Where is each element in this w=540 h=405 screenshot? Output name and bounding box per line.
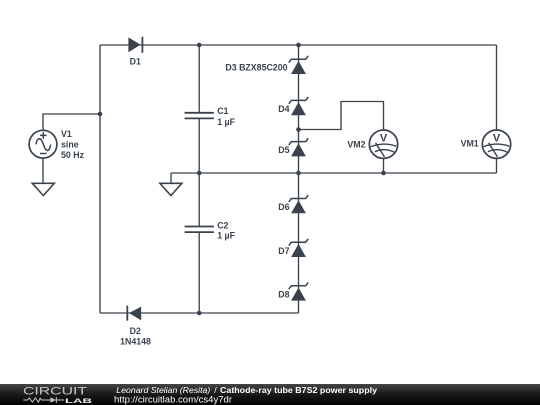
capacitor C2	[185, 227, 214, 233]
wire mid rail	[171, 172, 497, 174]
svg-text:http://circuitlab.com/cs4y7dr: http://circuitlab.com/cs4y7dr	[114, 394, 232, 404]
zener diode D3	[289, 56, 308, 74]
svg-text:D7: D7	[278, 246, 289, 256]
wire C1 branch upper	[198, 45, 200, 113]
node VM2 branch	[296, 127, 301, 132]
wire V1 bottom stub	[42, 158, 44, 183]
wire VM2 branch	[299, 102, 384, 131]
node junction dots	[98, 43, 386, 316]
svg-text:1 µF: 1 µF	[217, 117, 235, 127]
wire VM2 bottom stub	[383, 158, 385, 173]
wire C2 upper	[198, 173, 200, 227]
svg-text:D2: D2	[130, 326, 141, 336]
svg-text:D6: D6	[278, 202, 289, 212]
svg-text:C1: C1	[217, 106, 228, 116]
svg-text:Cathode-ray tube B7S2 power su: Cathode-ray tube B7S2 power supply	[220, 385, 377, 395]
wire zener column	[298, 45, 300, 313]
wire V1 top to node A	[43, 114, 100, 130]
voltmeter VM2	[369, 130, 397, 158]
node C1 top rail	[197, 43, 202, 48]
svg-text:CIRCUIT: CIRCUIT	[23, 386, 87, 398]
wire mid ground stub	[170, 173, 172, 183]
footer bar	[0, 384, 540, 405]
node C column mid rail	[197, 171, 202, 176]
svg-text:50 Hz: 50 Hz	[61, 150, 85, 160]
wire left vertical	[99, 45, 101, 313]
svg-text:V1: V1	[61, 129, 72, 139]
svg-text:VM2: VM2	[347, 139, 365, 149]
ground below V1	[32, 183, 54, 195]
diode D2 1N4148	[127, 306, 141, 321]
zener diode D5	[289, 138, 308, 156]
capacitor C1	[185, 113, 214, 119]
wire C2 to bottom rail	[198, 232, 200, 313]
svg-text:1 µF: 1 µF	[217, 231, 235, 241]
label V1 sine 50 Hz	[61, 129, 85, 160]
CircuitLab logo diode arrow	[50, 397, 56, 403]
svg-text:sine: sine	[61, 139, 79, 149]
svg-text:C2: C2	[217, 221, 228, 231]
svg-text:1N4148: 1N4148	[120, 337, 151, 347]
zener diode D8	[289, 282, 308, 300]
voltage source V1	[29, 130, 57, 158]
wire top rail	[100, 44, 497, 46]
svg-text:D5: D5	[278, 145, 289, 155]
voltmeter VM1	[482, 130, 510, 158]
svg-text:D8: D8	[278, 289, 289, 299]
wire C1 to mid rail	[198, 118, 200, 173]
wire VM1 bottom stub	[496, 158, 498, 173]
zener diode D4	[289, 97, 308, 115]
CircuitLab logo resistor-diode squiggle	[23, 397, 64, 403]
svg-text:Leonard Stelian (Resita): Leonard Stelian (Resita)	[116, 385, 210, 395]
zener diode D6	[289, 195, 308, 213]
node VM2 mid rail	[381, 171, 386, 176]
svg-text:LAB: LAB	[65, 398, 92, 405]
svg-text:D1: D1	[130, 57, 141, 67]
node zener top rail	[296, 43, 301, 48]
node V1-left vertical	[98, 112, 103, 117]
ground at mid rail	[160, 183, 182, 195]
svg-text:VM1: VM1	[461, 139, 479, 149]
svg-text:V: V	[380, 132, 388, 144]
svg-text:V: V	[493, 132, 501, 144]
svg-text:D4: D4	[278, 104, 289, 114]
node zener mid rail	[296, 171, 301, 176]
wire bottom rail	[100, 312, 299, 314]
wire top-right drop to VM1	[496, 45, 498, 130]
svg-text:D3 BZX85C200: D3 BZX85C200	[225, 62, 287, 72]
node C2 bottom rail	[197, 311, 202, 316]
diode D1	[128, 37, 142, 53]
zener diode D7	[289, 239, 308, 257]
